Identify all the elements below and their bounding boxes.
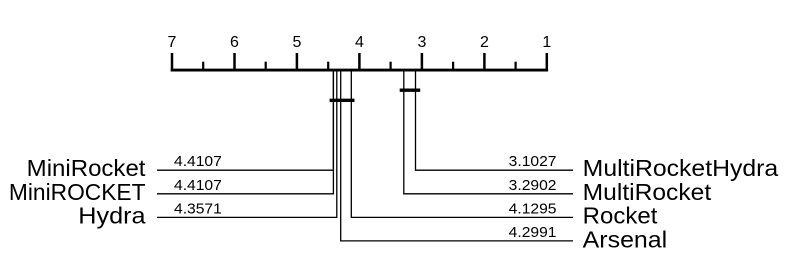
svg-text:4: 4: [355, 34, 364, 51]
connector MiniROCKET: [157, 70, 333, 194]
minor tick 6.5: [202, 62, 204, 72]
svg-text:4.4107: 4.4107: [174, 177, 222, 194]
major tick 4: [358, 53, 361, 72]
minor tick 1.5: [514, 62, 516, 72]
major tick 6: [233, 53, 236, 72]
clique bar right (MultiRocket..MultiRocketHydra): [400, 88, 421, 91]
svg-text:4.2991: 4.2991: [509, 224, 557, 241]
connector MiniRocket: [157, 70, 333, 170]
svg-text:MultiRocket: MultiRocket: [583, 179, 712, 205]
connector MultiRocket: [404, 70, 573, 194]
major tick 3: [421, 53, 424, 72]
svg-text:3.1027: 3.1027: [509, 153, 557, 170]
connector MultiRocketHydra: [416, 70, 574, 170]
axis line: [171, 69, 548, 72]
svg-text:5: 5: [292, 34, 301, 51]
svg-text:3.2902: 3.2902: [509, 177, 557, 194]
svg-text:Hydra: Hydra: [78, 202, 145, 228]
svg-text:MiniROCKET: MiniROCKET: [9, 179, 146, 205]
svg-text:4.1295: 4.1295: [509, 200, 557, 217]
svg-text:Rocket: Rocket: [583, 202, 658, 228]
svg-text:MultiRocketHydra: MultiRocketHydra: [583, 155, 779, 181]
svg-text:MiniRocket: MiniRocket: [27, 155, 146, 181]
minor tick 5.5: [265, 62, 267, 72]
svg-text:2: 2: [480, 34, 489, 51]
major tick 7: [171, 53, 174, 72]
clique bar left (MiniRocket..Rocket): [330, 99, 355, 102]
svg-text:6: 6: [230, 34, 239, 51]
svg-text:3: 3: [417, 34, 426, 51]
svg-text:7: 7: [168, 34, 177, 51]
connector Arsenal: [341, 70, 573, 241]
connector Rocket: [351, 70, 573, 217]
svg-text:Arsenal: Arsenal: [583, 227, 668, 253]
connector Hydra: [157, 70, 337, 217]
svg-text:4.4107: 4.4107: [174, 153, 222, 170]
major tick 2: [483, 53, 486, 72]
minor tick 4.5: [327, 62, 329, 72]
major tick 5: [296, 53, 299, 72]
minor tick 3.5: [390, 62, 392, 72]
major tick 1: [546, 53, 549, 72]
minor tick 2.5: [452, 62, 454, 72]
svg-text:1: 1: [542, 34, 551, 51]
svg-text:4.3571: 4.3571: [174, 200, 222, 217]
